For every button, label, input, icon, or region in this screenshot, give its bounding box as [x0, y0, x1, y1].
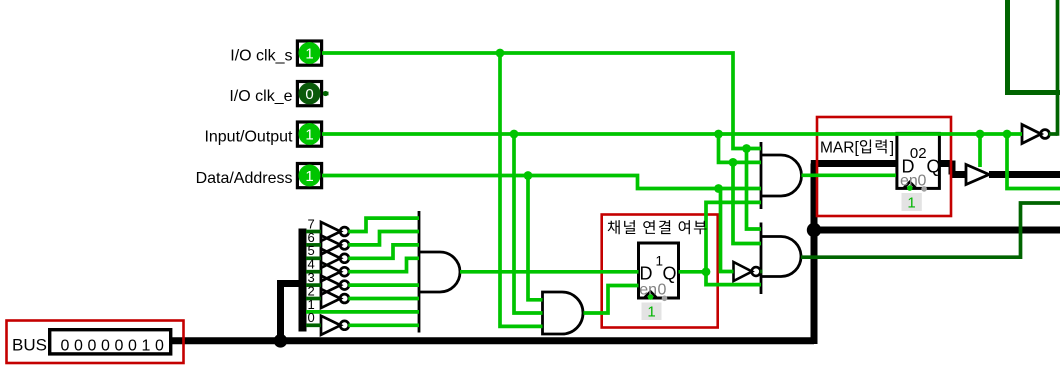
svg-text:D: D [640, 264, 653, 284]
svg-text:1: 1 [907, 195, 915, 212]
svg-text:0: 0 [918, 173, 927, 190]
svg-text:I/O clk_s: I/O clk_s [230, 47, 292, 64]
svg-text:en: en [639, 282, 657, 299]
svg-text:I/O clk_e: I/O clk_e [229, 88, 292, 105]
svg-text:1: 1 [647, 304, 655, 321]
svg-text:0: 0 [658, 282, 667, 299]
svg-text:Input/Output: Input/Output [204, 128, 293, 145]
svg-text:1: 1 [305, 45, 313, 62]
svg-text:en: en [900, 173, 918, 190]
svg-text:0: 0 [305, 86, 313, 103]
svg-text:MAR[: MAR[ [820, 139, 859, 156]
svg-text:00000010: 00000010 [61, 337, 169, 354]
svg-text:BUS: BUS [12, 336, 47, 355]
svg-text:1: 1 [656, 253, 664, 268]
svg-text:Q: Q [927, 157, 941, 177]
svg-text:02: 02 [910, 145, 927, 162]
svg-text:1: 1 [305, 126, 313, 143]
svg-text:Q: Q [663, 264, 677, 284]
svg-text:1: 1 [305, 168, 313, 185]
svg-text:]: ] [890, 139, 894, 156]
svg-text:Data/Address: Data/Address [196, 170, 293, 187]
svg-text:0: 0 [308, 310, 315, 325]
